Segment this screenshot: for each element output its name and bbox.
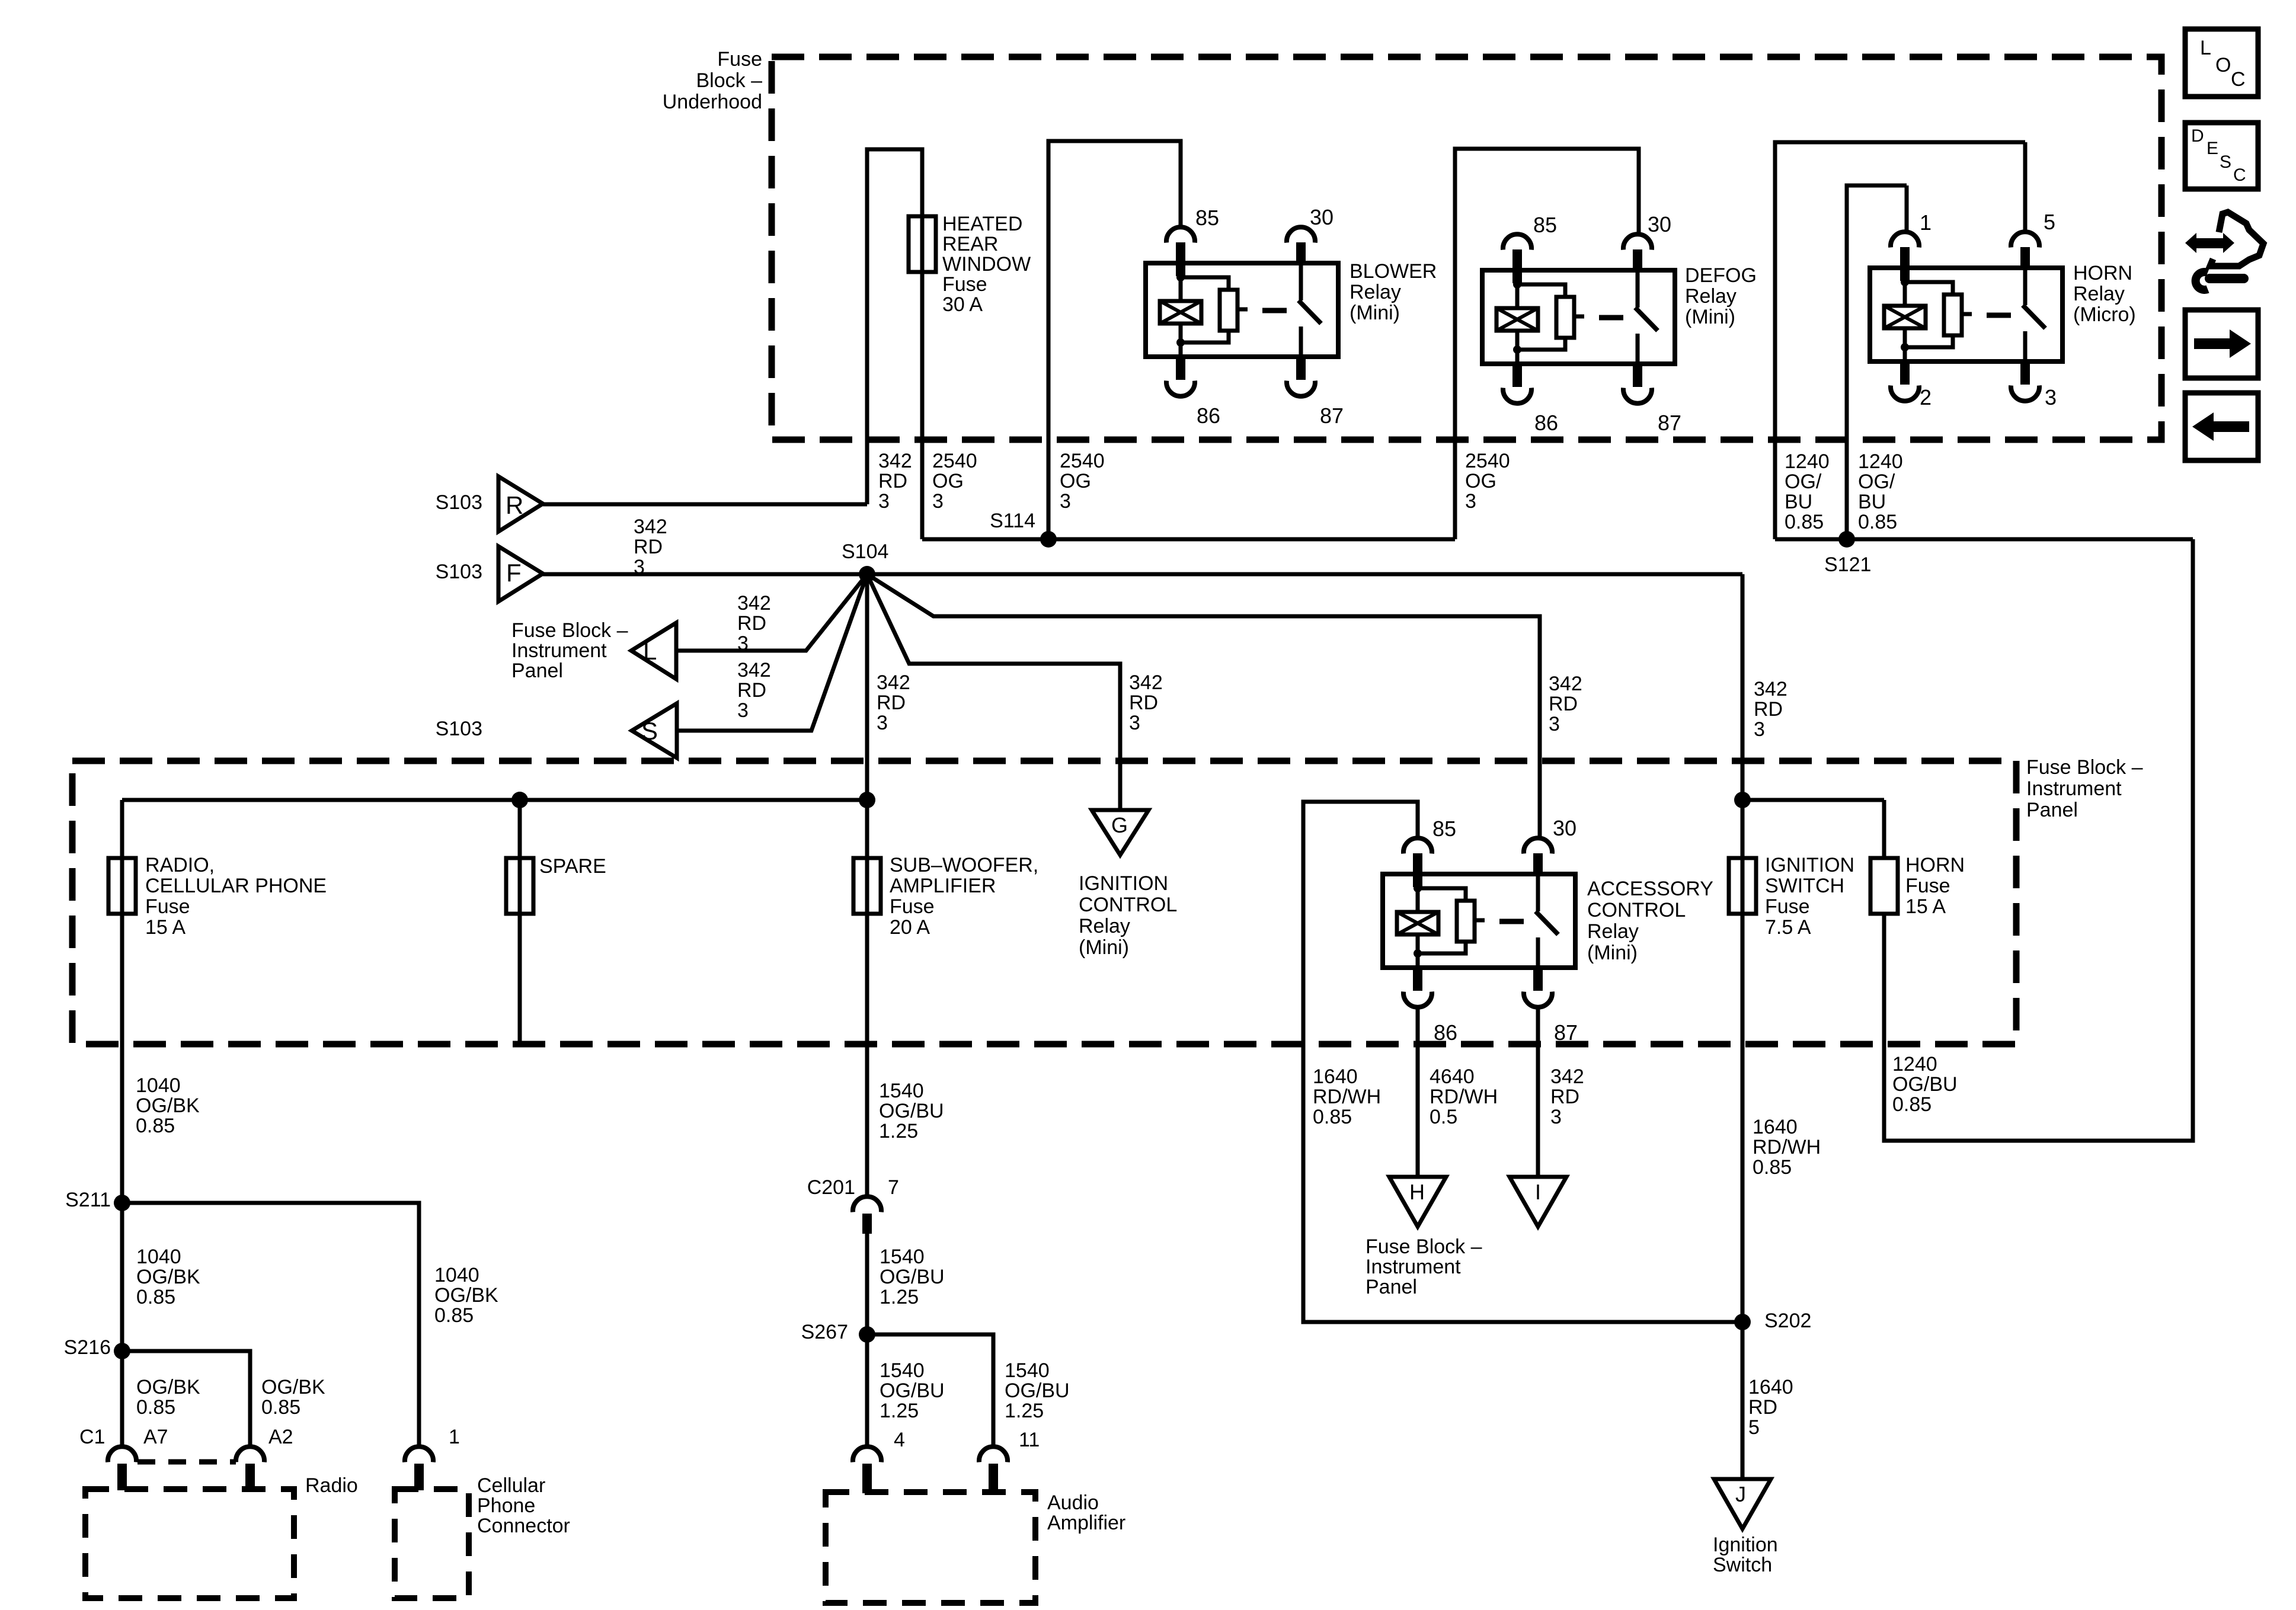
svg-text:REAR: REAR xyxy=(942,233,998,255)
svg-text:30: 30 xyxy=(1310,205,1334,229)
svg-text:RD: RD xyxy=(737,612,766,635)
svg-text:342: 342 xyxy=(1129,671,1163,694)
svg-text:342: 342 xyxy=(737,659,771,681)
svg-text:1040: 1040 xyxy=(136,1074,181,1097)
svg-text:342: 342 xyxy=(1550,1065,1584,1088)
svg-text:SUB–WOOFER,: SUB–WOOFER, xyxy=(890,854,1038,876)
svg-text:0.85: 0.85 xyxy=(1892,1093,1932,1116)
svg-text:C: C xyxy=(2231,68,2246,91)
svg-text:1.25: 1.25 xyxy=(880,1400,919,1422)
svg-text:1640: 1640 xyxy=(1748,1376,1793,1398)
svg-text:R: R xyxy=(506,491,523,519)
svg-text:OG/BU: OG/BU xyxy=(1892,1073,1958,1096)
svg-text:0.85: 0.85 xyxy=(261,1396,300,1419)
svg-text:HORN: HORN xyxy=(2073,262,2132,284)
svg-text:O: O xyxy=(2215,54,2231,76)
svg-text:Relay: Relay xyxy=(2073,283,2125,305)
svg-text:RD: RD xyxy=(1748,1396,1777,1419)
svg-text:85: 85 xyxy=(1195,206,1219,230)
svg-text:Relay: Relay xyxy=(1685,285,1737,308)
svg-text:RD/WH: RD/WH xyxy=(1753,1136,1821,1158)
svg-text:OG/BK: OG/BK xyxy=(136,1094,200,1117)
svg-text:2540: 2540 xyxy=(1060,450,1105,472)
svg-text:3: 3 xyxy=(1754,718,1765,741)
svg-text:OG/BK: OG/BK xyxy=(261,1376,325,1398)
svg-text:15 A: 15 A xyxy=(1905,895,1946,918)
svg-text:Relay: Relay xyxy=(1079,915,1130,937)
svg-text:3: 3 xyxy=(1465,490,1476,513)
svg-text:BU: BU xyxy=(1785,491,1812,513)
svg-text:Fuse: Fuse xyxy=(1765,895,1810,918)
svg-text:3: 3 xyxy=(878,490,890,513)
svg-text:(Mini): (Mini) xyxy=(1350,302,1400,324)
svg-text:1540: 1540 xyxy=(880,1246,925,1268)
svg-text:(Micro): (Micro) xyxy=(2073,303,2136,326)
svg-text:RD: RD xyxy=(1550,1086,1579,1108)
svg-text:RD/WH: RD/WH xyxy=(1313,1086,1381,1108)
svg-text:(Mini): (Mini) xyxy=(1079,936,1129,959)
svg-text:0.85: 0.85 xyxy=(1753,1156,1792,1179)
svg-text:3: 3 xyxy=(1129,712,1140,734)
svg-text:3: 3 xyxy=(737,699,749,722)
svg-text:RD: RD xyxy=(634,536,663,558)
svg-text:342: 342 xyxy=(877,671,910,694)
svg-text:I: I xyxy=(1535,1180,1541,1204)
svg-text:Cellular: Cellular xyxy=(477,1474,545,1497)
svg-text:RD: RD xyxy=(737,679,766,702)
svg-text:0.85: 0.85 xyxy=(136,1115,175,1137)
svg-text:(Mini): (Mini) xyxy=(1587,942,1638,964)
svg-text:IGNITION: IGNITION xyxy=(1079,872,1168,895)
svg-text:Ignition: Ignition xyxy=(1713,1534,1778,1556)
svg-text:86: 86 xyxy=(1434,1020,1457,1045)
svg-text:S103: S103 xyxy=(436,718,482,740)
svg-text:3: 3 xyxy=(932,490,944,513)
svg-text:S121: S121 xyxy=(1824,553,1871,576)
svg-text:A2: A2 xyxy=(268,1426,293,1448)
svg-text:S104: S104 xyxy=(842,540,888,563)
svg-text:OG/BU: OG/BU xyxy=(1005,1379,1070,1402)
svg-text:1540: 1540 xyxy=(1005,1359,1050,1382)
svg-text:0.85: 0.85 xyxy=(1785,511,1824,533)
svg-text:342: 342 xyxy=(634,516,667,538)
svg-text:S216: S216 xyxy=(64,1336,111,1359)
svg-text:SPARE: SPARE xyxy=(539,855,606,878)
svg-text:J: J xyxy=(1735,1482,1746,1506)
svg-text:Amplifier: Amplifier xyxy=(1047,1512,1125,1534)
svg-text:2540: 2540 xyxy=(1465,450,1510,472)
svg-text:30: 30 xyxy=(1648,212,1671,236)
svg-text:Block –: Block – xyxy=(696,69,763,92)
svg-text:5: 5 xyxy=(1748,1416,1760,1439)
svg-text:OG: OG xyxy=(932,470,964,492)
svg-text:S: S xyxy=(2220,152,2231,172)
svg-text:OG/BU: OG/BU xyxy=(880,1266,945,1288)
svg-text:1540: 1540 xyxy=(880,1359,925,1382)
svg-text:86: 86 xyxy=(1197,404,1220,428)
svg-text:Instrument: Instrument xyxy=(1366,1256,1461,1278)
svg-text:2: 2 xyxy=(1920,385,1932,409)
svg-text:4640: 4640 xyxy=(1430,1065,1475,1088)
svg-text:A7: A7 xyxy=(143,1426,168,1448)
svg-text:3: 3 xyxy=(737,632,749,655)
svg-text:0.5: 0.5 xyxy=(1430,1106,1457,1128)
svg-text:Connector: Connector xyxy=(477,1515,570,1537)
svg-text:CONTROL: CONTROL xyxy=(1079,894,1177,916)
svg-text:S267: S267 xyxy=(801,1321,848,1343)
svg-text:87: 87 xyxy=(1658,411,1681,435)
svg-text:OG/BU: OG/BU xyxy=(879,1100,944,1122)
svg-text:OG/BK: OG/BK xyxy=(136,1376,200,1398)
svg-text:7: 7 xyxy=(888,1176,899,1199)
svg-text:RD: RD xyxy=(1549,693,1578,715)
svg-text:342: 342 xyxy=(1549,673,1582,695)
svg-text:S: S xyxy=(641,717,658,745)
svg-text:Underhood: Underhood xyxy=(663,91,762,113)
svg-text:Relay: Relay xyxy=(1587,920,1639,943)
svg-text:HORN: HORN xyxy=(1905,854,1965,876)
svg-text:G: G xyxy=(1111,813,1128,837)
svg-text:OG: OG xyxy=(1465,470,1496,492)
svg-text:86: 86 xyxy=(1534,411,1558,435)
svg-text:L: L xyxy=(2200,37,2211,59)
svg-text:Panel: Panel xyxy=(511,660,563,682)
svg-text:0.85: 0.85 xyxy=(1313,1106,1352,1128)
svg-text:342: 342 xyxy=(878,450,912,472)
svg-text:342: 342 xyxy=(1754,678,1787,700)
svg-text:30: 30 xyxy=(1553,816,1576,840)
svg-text:Fuse: Fuse xyxy=(717,48,762,71)
svg-text:S103: S103 xyxy=(436,491,482,514)
svg-text:Fuse Block –: Fuse Block – xyxy=(1366,1235,1482,1258)
svg-text:1040: 1040 xyxy=(136,1246,181,1268)
svg-text:WINDOW: WINDOW xyxy=(942,253,1031,276)
svg-text:7.5 A: 7.5 A xyxy=(1765,916,1811,939)
svg-text:87: 87 xyxy=(1554,1020,1578,1045)
svg-text:3: 3 xyxy=(2045,385,2057,409)
svg-text:RD: RD xyxy=(877,692,906,714)
svg-text:1240: 1240 xyxy=(1785,450,1830,473)
svg-text:RD: RD xyxy=(878,470,907,492)
svg-text:0.85: 0.85 xyxy=(136,1286,175,1308)
svg-text:30 A: 30 A xyxy=(942,293,983,316)
svg-text:Fuse Block –: Fuse Block – xyxy=(2026,756,2143,779)
svg-text:L: L xyxy=(643,637,657,665)
svg-text:1.25: 1.25 xyxy=(880,1286,919,1308)
svg-text:1: 1 xyxy=(1920,210,1932,235)
svg-text:DEFOG: DEFOG xyxy=(1685,264,1757,287)
svg-text:3: 3 xyxy=(1550,1106,1562,1128)
svg-text:Fuse: Fuse xyxy=(942,273,987,296)
svg-text:Switch: Switch xyxy=(1713,1554,1772,1576)
svg-text:1240: 1240 xyxy=(1892,1053,1937,1076)
svg-text:C1: C1 xyxy=(79,1426,105,1448)
svg-text:OG/: OG/ xyxy=(1785,470,1822,493)
svg-text:1240: 1240 xyxy=(1858,450,1903,473)
svg-text:D: D xyxy=(2191,126,2204,146)
svg-text:HEATED: HEATED xyxy=(942,213,1022,235)
svg-text:2540: 2540 xyxy=(932,450,977,472)
svg-text:Instrument: Instrument xyxy=(511,639,607,662)
svg-text:0.85: 0.85 xyxy=(136,1396,175,1419)
svg-text:ACCESSORY: ACCESSORY xyxy=(1587,878,1713,900)
svg-text:OG/BU: OG/BU xyxy=(880,1379,945,1402)
svg-text:3: 3 xyxy=(634,556,645,578)
svg-text:OG/BK: OG/BK xyxy=(136,1266,200,1288)
svg-text:H: H xyxy=(1409,1180,1425,1204)
svg-text:3: 3 xyxy=(1549,713,1560,735)
svg-text:C201: C201 xyxy=(807,1176,855,1199)
svg-text:Instrument: Instrument xyxy=(2026,777,2122,800)
svg-text:1540: 1540 xyxy=(879,1080,924,1102)
svg-text:RD: RD xyxy=(1129,692,1158,714)
svg-text:SWITCH: SWITCH xyxy=(1765,875,1844,897)
svg-text:F: F xyxy=(506,559,522,587)
svg-text:Fuse: Fuse xyxy=(890,895,935,918)
svg-text:RD/WH: RD/WH xyxy=(1430,1086,1498,1108)
svg-text:Panel: Panel xyxy=(1366,1276,1417,1298)
svg-text:OG: OG xyxy=(1060,470,1091,492)
svg-text:RADIO,: RADIO, xyxy=(145,854,215,876)
svg-text:5: 5 xyxy=(2044,210,2055,234)
svg-text:1.25: 1.25 xyxy=(879,1120,918,1142)
svg-text:Audio: Audio xyxy=(1047,1491,1099,1514)
svg-text:1040: 1040 xyxy=(434,1264,479,1286)
svg-text:87: 87 xyxy=(1320,404,1344,428)
svg-text:IGNITION: IGNITION xyxy=(1765,854,1854,876)
svg-text:1640: 1640 xyxy=(1753,1116,1798,1138)
svg-text:S103: S103 xyxy=(436,561,482,583)
svg-text:1: 1 xyxy=(449,1426,460,1448)
svg-text:S211: S211 xyxy=(65,1189,111,1211)
svg-text:85: 85 xyxy=(1533,213,1557,237)
svg-text:BLOWER: BLOWER xyxy=(1350,260,1437,283)
svg-text:(Mini): (Mini) xyxy=(1685,306,1735,328)
svg-text:Fuse Block –: Fuse Block – xyxy=(511,619,628,642)
svg-text:Fuse: Fuse xyxy=(1905,875,1950,897)
svg-text:85: 85 xyxy=(1432,817,1456,841)
svg-text:S202: S202 xyxy=(1764,1310,1811,1332)
svg-text:OG/: OG/ xyxy=(1858,470,1895,493)
svg-text:CONTROL: CONTROL xyxy=(1587,899,1686,921)
svg-text:3: 3 xyxy=(877,712,888,734)
svg-text:Fuse: Fuse xyxy=(145,895,190,918)
svg-text:20 A: 20 A xyxy=(890,916,930,939)
svg-text:RD: RD xyxy=(1754,698,1783,721)
svg-text:AMPLIFIER: AMPLIFIER xyxy=(890,875,996,897)
svg-text:11: 11 xyxy=(1019,1429,1040,1451)
svg-text:0.85: 0.85 xyxy=(434,1304,474,1327)
svg-text:342: 342 xyxy=(737,592,771,614)
svg-text:OG/BK: OG/BK xyxy=(434,1284,498,1307)
svg-text:E: E xyxy=(2207,139,2218,158)
svg-text:Panel: Panel xyxy=(2026,799,2078,821)
svg-text:15 A: 15 A xyxy=(145,916,186,939)
svg-text:3: 3 xyxy=(1060,490,1071,513)
svg-text:CELLULAR PHONE: CELLULAR PHONE xyxy=(145,875,327,897)
svg-text:0.85: 0.85 xyxy=(1858,511,1897,533)
svg-text:S114: S114 xyxy=(990,510,1035,532)
svg-text:Phone: Phone xyxy=(477,1494,535,1517)
svg-text:BU: BU xyxy=(1858,491,1886,513)
svg-text:Radio: Radio xyxy=(305,1474,358,1497)
svg-text:1.25: 1.25 xyxy=(1005,1400,1044,1422)
svg-text:4: 4 xyxy=(894,1429,905,1451)
svg-text:Relay: Relay xyxy=(1350,281,1401,303)
svg-text:1640: 1640 xyxy=(1313,1065,1358,1088)
svg-text:C: C xyxy=(2233,165,2246,185)
